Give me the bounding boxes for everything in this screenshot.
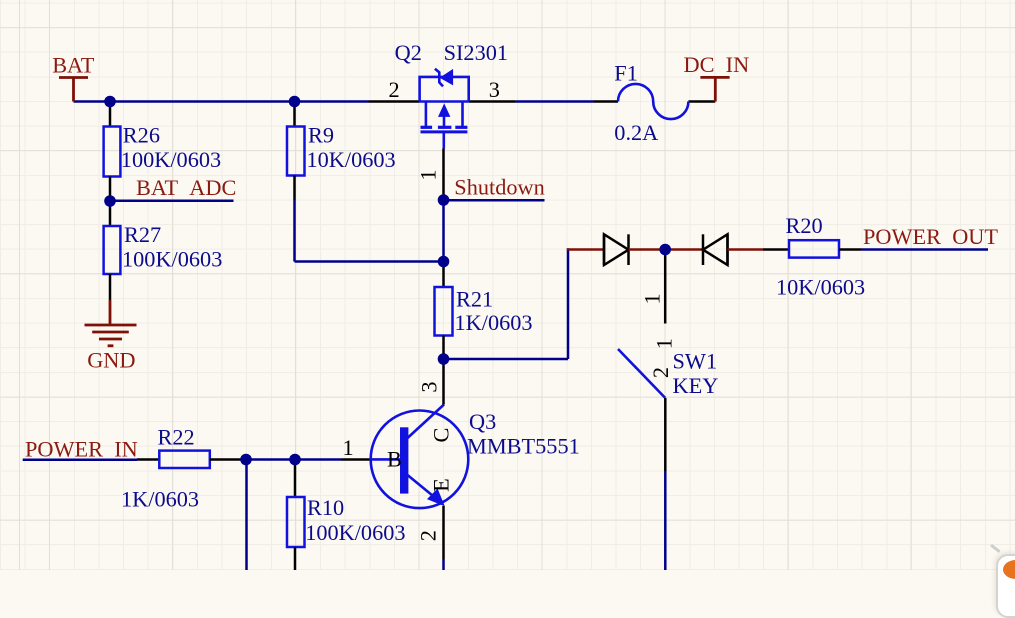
svg-text:C: C [429, 428, 454, 443]
svg-text:R22: R22 [158, 424, 195, 449]
wire F1 left pin black [594, 100, 618, 103]
base bar of Q3 [400, 427, 408, 493]
junction at BAT/R26 [104, 96, 116, 108]
wire R21 top pin black [442, 262, 445, 288]
junction at Shutdown [438, 194, 450, 206]
wire F1 right pin black [688, 100, 715, 103]
svg-text:1: 1 [640, 293, 665, 304]
wire R22 right pin black [210, 458, 246, 461]
junction at R10 top [289, 454, 301, 466]
svg-text:Q2: Q2 [395, 40, 422, 65]
wire R9 bottom pin black [293, 176, 296, 201]
wire SW1 pin1 black [664, 250, 667, 324]
transistor Q2 pmos body bridge [420, 69, 469, 102]
svg-text:KEY: KEY [673, 373, 719, 398]
wire D2 cathode pin red [665, 248, 703, 251]
resistor R21 [435, 287, 453, 336]
wire BAT_ADC stub blue [110, 199, 234, 202]
wire Q3 base pin black [341, 458, 371, 461]
svg-text:1K/0603: 1K/0603 [455, 310, 533, 335]
svg-text:SW1: SW1 [673, 348, 718, 373]
body diode arrow of Q2 [441, 70, 453, 85]
collector diagonal of Q3 [408, 405, 445, 439]
svg-text:MMBT5551: MMBT5551 [467, 433, 580, 458]
svg-text:2: 2 [389, 77, 400, 102]
svg-text:100K/0603: 100K/0603 [121, 147, 221, 172]
wire R20 right pin black [839, 248, 861, 251]
ground GND [85, 300, 137, 346]
transistor Q2 channel [421, 102, 468, 149]
resistor R10 [287, 497, 305, 547]
wire D2 anode pin red [728, 248, 764, 251]
resistor R26 [104, 127, 121, 177]
svg-text:SI2301: SI2301 [444, 40, 508, 65]
svg-text:R10: R10 [307, 495, 344, 520]
svg-text:100K/0603: 100K/0603 [122, 247, 222, 272]
wire to Q3 base blue [295, 458, 341, 461]
wire R20 left pin black [763, 248, 789, 251]
switch SW1 blade [618, 349, 665, 398]
svg-text:R26: R26 [123, 122, 160, 147]
wire riser up blue [567, 248, 570, 359]
svg-text:F1: F1 [614, 61, 638, 86]
fuse F1 [618, 84, 688, 119]
wire junction to junction blue [246, 458, 295, 461]
svg-text:100K/0603: 100K/0603 [305, 520, 405, 545]
svg-text:Q3: Q3 [469, 409, 496, 434]
wire R10 top pin black [294, 460, 297, 498]
svg-text:3: 3 [489, 77, 500, 102]
wire R26 bottom pin black [109, 177, 112, 202]
wire down-left column blue [245, 460, 248, 571]
svg-text:1: 1 [343, 435, 354, 460]
wire R21 to riser blue [444, 358, 569, 361]
wire R21 bottom pin black [442, 336, 445, 360]
svg-text:10K/0603: 10K/0603 [307, 147, 396, 172]
svg-text:R27: R27 [124, 222, 161, 247]
wire Q2 gate pin black [442, 149, 445, 201]
svg-text:GND: GND [87, 348, 135, 373]
wire Shutdown stub blue [444, 199, 545, 202]
svg-text:B: B [387, 446, 402, 471]
emitter diagonal of Q3 [408, 475, 442, 503]
svg-text:R20: R20 [786, 213, 823, 238]
resistor R22 [159, 451, 210, 468]
transistor Q3 [371, 411, 469, 509]
svg-text:BAT: BAT [52, 52, 95, 77]
junction at BAT_ADC [104, 195, 116, 207]
resistor R27 [104, 226, 121, 274]
wire POWER_IN stub blue [23, 458, 137, 461]
wire BAT rail blue [74, 100, 369, 103]
wire Q3 emitter pin black [442, 506, 445, 560]
svg-text:10K/0603: 10K/0603 [776, 274, 865, 299]
wire R9 top pin black [293, 102, 296, 127]
junction at R21 bottom [438, 353, 450, 365]
svg-text:2: 2 [416, 530, 441, 541]
wire R22 left pin black [137, 458, 160, 461]
resistor R20 [789, 240, 839, 257]
resistor R9 [287, 127, 305, 176]
diode D1 [604, 234, 629, 265]
wire R27 top pin black [109, 201, 112, 226]
svg-text:2: 2 [648, 367, 673, 378]
wire Q3 collector pin black [442, 359, 445, 405]
wire D1 cathode pin red [629, 248, 666, 251]
wire shutdown column blue [442, 200, 445, 262]
svg-text:1K/0603: 1K/0603 [121, 487, 199, 512]
svg-text:POWER_IN: POWER_IN [25, 437, 138, 462]
wire Q2 pin3 lead black [469, 100, 515, 103]
junction at diode node [659, 244, 671, 256]
emitter arrow of Q3 [428, 490, 443, 505]
arrow of Q2 channel [439, 105, 450, 117]
svg-text:3: 3 [417, 381, 442, 392]
junction at R21 top [438, 256, 450, 268]
junction at R9 top [289, 96, 301, 108]
wire R9 to shutdown column blue [295, 260, 444, 263]
wire Q2 to F1 blue [515, 100, 594, 103]
corner widget mascot [1003, 560, 1015, 579]
svg-text:0.2A: 0.2A [614, 120, 658, 145]
wire diode D1 anode pin red [567, 248, 604, 251]
svg-text:POWER_OUT: POWER_OUT [863, 224, 998, 249]
svg-text:BAT_ADC: BAT_ADC [136, 175, 236, 200]
wire SW1 down blue [664, 471, 667, 570]
svg-text:DC_IN: DC_IN [684, 52, 750, 77]
junction at POWER_IN left [240, 454, 252, 466]
wire R26 top pin black [109, 102, 112, 127]
body diode cathode bar with zener ticks [435, 69, 443, 87]
node DC_IN flag [700, 77, 729, 101]
wire R10 bottom pin black [294, 547, 297, 570]
wire POWER_OUT stub blue [861, 248, 988, 251]
node BAT flag [59, 78, 88, 102]
wire SW1 pin2 black [664, 398, 667, 471]
wire R27 bottom pin black [109, 274, 112, 300]
base lead of Q3 [371, 458, 400, 461]
svg-text:1: 1 [416, 169, 441, 180]
svg-text:E: E [429, 478, 454, 492]
wire R9 down blue [293, 200, 296, 262]
diode D2 [703, 234, 728, 265]
svg-text:R21: R21 [456, 287, 493, 312]
svg-text:Shutdown: Shutdown [454, 174, 544, 199]
wire Q3 emitter down blue [442, 560, 445, 571]
wire Q2 pin2 lead black [369, 100, 420, 103]
corner widget [996, 554, 1015, 618]
svg-text:R9: R9 [308, 122, 334, 147]
